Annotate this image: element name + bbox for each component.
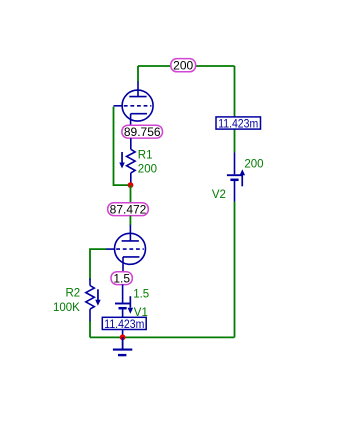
svg-text:200: 200 [244, 159, 263, 171]
wire: current label to ground junction [122, 330, 124, 338]
current label 11.423m (V1 branch) [102, 317, 146, 331]
node label 87.472 (U2 plate voltage) [108, 202, 149, 216]
bottom pin [234, 181, 236, 202]
vacuum tube triode U2 (lower) [106, 225, 146, 273]
junction node (R1 bottom / U1 grid / U2 plate) [128, 182, 134, 188]
svg-text:R1: R1 [138, 149, 153, 161]
cathode [131, 113, 147, 115]
negative plate (short) [119, 307, 127, 310]
V1 current direction arrow [128, 296, 134, 314]
plate [122, 240, 139, 242]
current label 11.423m (V2 branch) [216, 117, 261, 130]
wire: top rail node 200 [138, 65, 235, 67]
svg-text:89.756: 89.756 [124, 125, 161, 139]
envelope [122, 90, 153, 121]
node label 89.756 (U1 cathode voltage) [122, 125, 163, 139]
vacuum tube triode U1 (upper) [114, 82, 154, 127]
svg-text:87.472: 87.472 [110, 202, 147, 216]
battery V1 [115, 284, 130, 317]
wire: junction to node 87.472 label [130, 185, 132, 203]
resistor R2 [86, 279, 95, 323]
plate pin [137, 82, 139, 97]
svg-text:200: 200 [173, 59, 193, 73]
plate [129, 96, 146, 98]
cathode pin [122, 257, 124, 273]
cathode pin [130, 114, 132, 127]
wire: bottom ground rail [90, 336, 235, 338]
wire: U2 grid to R2 top [90, 249, 106, 279]
negative plate (short) [230, 179, 238, 182]
R2 current direction arrow [95, 289, 101, 306]
svg-text:R2: R2 [66, 288, 81, 300]
wire: grid feedback (U1 grid to R1 bottom) [114, 107, 130, 186]
wire: R2 bottom to ground rail [89, 321, 91, 337]
junction node (ground rail) [120, 334, 126, 340]
wire: V2 bottom to ground rail [234, 202, 236, 338]
svg-text:200: 200 [138, 163, 157, 175]
V2 current direction arrow [240, 169, 246, 186]
node label 200 (top rail voltage) [171, 59, 196, 73]
wire: label to U2 plate [129, 216, 131, 225]
wire: right branch vertical (top rail to V2) [234, 66, 236, 153]
grid pin [114, 105, 123, 107]
top pin [122, 284, 124, 302]
svg-text:1.5: 1.5 [133, 288, 149, 300]
envelope [115, 233, 146, 264]
node label 1.5 (U2 cathode voltage) [111, 271, 132, 285]
svg-text:100K: 100K [53, 302, 80, 314]
top pin [234, 153, 236, 175]
R1 current direction arrow [119, 152, 125, 169]
plate pin [129, 225, 131, 241]
positive plate (long) [227, 174, 242, 176]
resistor R1 [127, 138, 136, 185]
battery V2 [227, 153, 242, 202]
svg-text:11.423m: 11.423m [218, 118, 258, 130]
svg-text:11.423m: 11.423m [104, 319, 144, 331]
bottom pin [122, 309, 124, 317]
svg-text:1.5: 1.5 [113, 271, 130, 285]
positive plate (long) [115, 303, 130, 305]
cathode [123, 256, 139, 258]
svg-text:V2: V2 [212, 189, 226, 201]
grid (dashed) [116, 248, 144, 250]
grid pin [106, 248, 115, 250]
wire: upper tube plate connection [137, 66, 139, 82]
grid (dashed) [124, 105, 152, 107]
ground symbol [113, 337, 132, 355]
